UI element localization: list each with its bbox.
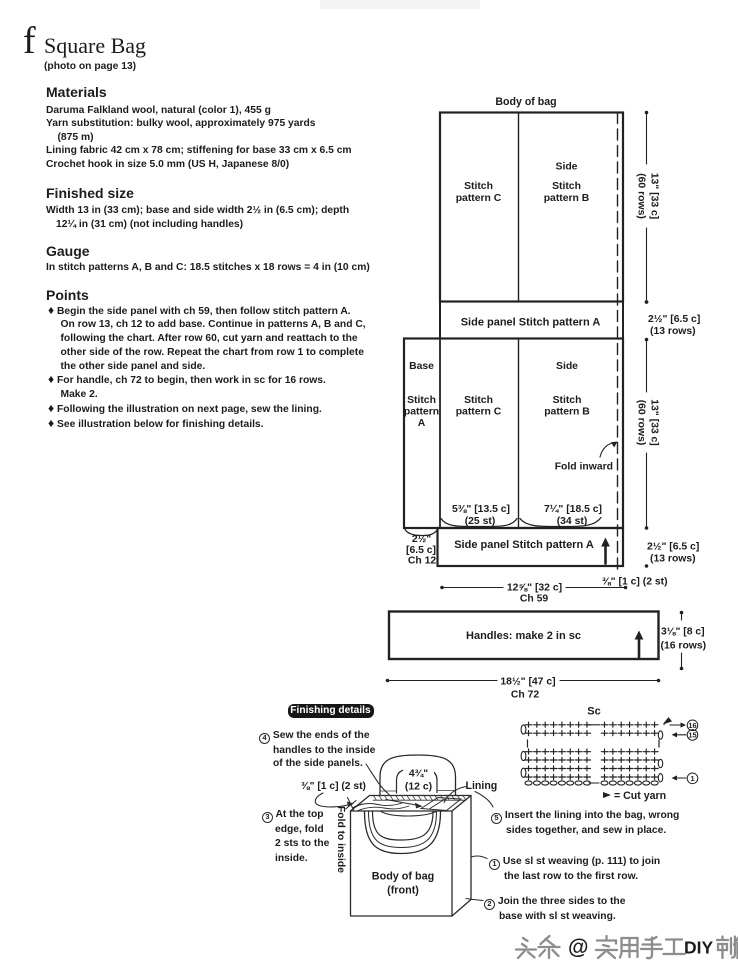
label: stitch pattern C (middle) (456, 395, 502, 418)
svg-text:2½" [6.5 c]: 2½" [6.5 c] (648, 314, 700, 325)
label: 13in 60 rows top (rotated) (636, 173, 660, 220)
svg-text:4¾": 4¾" (409, 769, 428, 780)
label: Side / stitch pattern B (middle) (544, 361, 590, 418)
label: 5-3/8 width (452, 504, 510, 527)
note 5 (491, 809, 679, 837)
bag: arrow on top face (386, 800, 423, 809)
label: 18-1/2 Ch 72 (500, 677, 555, 701)
label: 12-5/8 Ch 59 (507, 583, 562, 605)
svg-text:13" [33 c]: 13" [33 c] (649, 173, 660, 220)
3/8 label (illustration) (301, 780, 366, 794)
panel: handles rect (389, 612, 659, 660)
label: 3-1/8 16 rows (661, 627, 707, 652)
svg-text:(25 st): (25 st) (465, 516, 496, 527)
sc chart: row 1 arrow and number (672, 773, 698, 784)
bag: front handle sag curve (381, 812, 436, 817)
label: Base (409, 361, 434, 372)
svg-text:Side: Side (556, 361, 578, 372)
dimension line 13in top (645, 111, 649, 304)
fold to inside rotated label (334, 806, 348, 873)
dimension line 13in middle (645, 340, 649, 530)
width brace column B (520, 518, 601, 527)
dimension 2.5in band1 (645, 300, 649, 341)
decorative letter f (23, 19, 36, 63)
svg-text:Ch 72: Ch 72 (511, 690, 540, 701)
dimension 3-1/8 handles (680, 611, 684, 671)
bag: handle arch inner (397, 769, 438, 794)
label: 2.5in 13 rows band2 (647, 542, 699, 565)
divider: base column (439, 339, 441, 529)
svg-text:16: 16 (688, 721, 696, 730)
label: 3/8in 1c 2st (602, 577, 668, 588)
legend: cut yarn (603, 790, 666, 802)
svg-text:pattern B: pattern B (544, 193, 590, 204)
sc chart: turning chains right (658, 731, 662, 782)
svg-text:(13 rows): (13 rows) (650, 326, 696, 337)
watermark: toutiao chinese text (stylized) (516, 936, 738, 958)
svg-text:Ch 12: Ch 12 (408, 556, 437, 567)
Gauge heading (46, 243, 90, 259)
bag: front handle middle seam (369, 812, 437, 848)
svg-text:Side: Side (556, 162, 578, 173)
bag: front hanging handle outer (365, 812, 441, 854)
panel: top body rect (440, 113, 623, 302)
svg-text:15: 15 (688, 731, 696, 740)
bag: handle arch outer (380, 755, 456, 796)
pointer: note4 to handle (366, 764, 389, 795)
svg-text:pattern C: pattern C (456, 407, 502, 418)
Materials body (46, 104, 352, 172)
svg-text:Lining: Lining (466, 780, 498, 792)
label: Fold inward with pointer arrow (555, 442, 618, 473)
svg-text:2½": 2½" (412, 534, 431, 545)
band: side panel stitch pattern A (lower) (438, 528, 624, 566)
sc chart: gap dash row16 (588, 724, 600, 726)
svg-text:5⅜" [13.5 c]: 5⅜" [13.5 c] (452, 504, 510, 515)
svg-text:Ch 59: Ch 59 (520, 594, 549, 605)
sc chart: row break marks (528, 740, 660, 747)
label: 2-1/2 / 6.5c / Ch 12 (406, 534, 436, 567)
label: 7-1/4 width (544, 504, 602, 527)
Materials heading (46, 84, 107, 100)
divider: C/B columns (518, 339, 520, 529)
bag: front face (351, 811, 453, 916)
bag: front hanging handle inner (373, 812, 434, 841)
svg-text:= Cut yarn: = Cut yarn (614, 790, 666, 802)
fold line (dashed) (617, 113, 619, 571)
pointer: note2 to bag corner (466, 899, 483, 901)
bag: lining sheet on top face (421, 798, 461, 811)
bag: right side face (452, 796, 471, 917)
svg-text:pattern C: pattern C (456, 193, 502, 204)
svg-text:A: A (418, 418, 426, 429)
panel: middle rect with base column (404, 339, 623, 529)
svg-text:pattern B: pattern B (544, 407, 590, 418)
sc chart: cut yarn flag (664, 717, 672, 724)
svg-text:Base: Base (409, 361, 434, 372)
divider line top panel (518, 113, 520, 302)
svg-text:Stitch: Stitch (464, 181, 493, 192)
width brace column C (441, 519, 517, 527)
svg-text:Stitch: Stitch (407, 395, 436, 406)
label: 13in 60 rows middle (rotated) (636, 399, 660, 446)
Finishing details badge (288, 704, 374, 718)
sc chart: single crochet symbol rows (525, 722, 658, 779)
label: Body of bag (front) (372, 871, 434, 897)
svg-text:Handles: make 2 in sc: Handles: make 2 in sc (466, 630, 581, 642)
sc chart: row 15 arrow and number (672, 730, 698, 741)
label: Side / stitch pattern B (top) (544, 162, 590, 205)
svg-text:1: 1 (690, 774, 694, 783)
note 2 (484, 895, 625, 923)
svg-text:7¼" [18.5 c]: 7¼" [18.5 c] (544, 504, 602, 515)
label: stitch pattern A column (404, 395, 439, 429)
label: Lining (466, 780, 498, 792)
label: stitch pattern C (top) (456, 181, 502, 204)
work direction arrow band2 (601, 538, 610, 564)
note 3 (262, 808, 329, 867)
svg-text:Fold inward: Fold inward (555, 462, 613, 473)
label: 2.5in 13 rows band1 (648, 314, 700, 337)
svg-text:(16 rows): (16 rows) (661, 641, 707, 652)
svg-text:Side panel Stitch pattern A: Side panel Stitch pattern A (454, 539, 594, 551)
work direction arrow handles (635, 631, 644, 658)
pointer: note5 to lining (475, 792, 493, 808)
note 1 (489, 855, 660, 883)
svg-text:Stitch: Stitch (464, 395, 493, 406)
bag: top fold hatch (373, 795, 466, 800)
svg-text:(12 c): (12 c) (405, 782, 432, 793)
svg-text:Body of bag: Body of bag (495, 96, 556, 108)
svg-text:Side panel Stitch pattern A: Side panel Stitch pattern A (461, 317, 601, 329)
bag: top face (351, 796, 472, 812)
Finished size heading (46, 185, 134, 201)
dimension 2.5in band2 (645, 564, 649, 568)
label: Body of bag (495, 96, 556, 108)
subtitle (44, 60, 136, 74)
sc chart: row 16 arrow and number (670, 720, 698, 731)
label: 4-3/4 (12 c) (403, 767, 434, 793)
svg-text:DIY: DIY (684, 938, 714, 958)
sc chart: foundation chain row (525, 781, 658, 785)
svg-text:@: @ (568, 936, 588, 959)
svg-text:Body of bag: Body of bag (372, 871, 434, 883)
title (44, 33, 146, 59)
svg-text:(60 rows): (60 rows) (636, 173, 647, 219)
svg-text:13" [33 c]: 13" [33 c] (649, 399, 660, 446)
Points heading (46, 287, 89, 303)
svg-text:12⅝" [32 c]: 12⅝" [32 c] (507, 583, 562, 594)
note 4 (259, 729, 375, 771)
band: side panel stitch pattern A (upper) (440, 302, 623, 339)
bag: handle strap lines (380, 790, 456, 793)
pointer: 3/8 label to fold (315, 793, 356, 810)
svg-text:Stitch: Stitch (553, 395, 582, 406)
svg-text:[6.5 c]: [6.5 c] (406, 545, 436, 556)
svg-text:Stitch: Stitch (552, 181, 581, 192)
svg-text:3⅛" [8 c]: 3⅛" [8 c] (661, 627, 705, 638)
svg-text:pattern: pattern (404, 407, 439, 418)
dimension 18-1/2 (386, 679, 661, 683)
svg-text:Sc: Sc (587, 706, 600, 718)
svg-text:(front): (front) (387, 885, 419, 897)
svg-text:18½" [47 c]: 18½" [47 c] (500, 677, 555, 688)
svg-text:⅜" [1 c] (2 st): ⅜" [1 c] (2 st) (602, 577, 668, 588)
pointer: lining label to bag top (444, 787, 466, 803)
width brace base column (405, 530, 438, 536)
sc chart: turning chains left (521, 725, 526, 778)
bag: gathered fold squiggles on top face (351, 803, 410, 811)
faint scan smudge top (320, 0, 480, 9)
label: Sc (587, 706, 600, 718)
svg-text:2½" [6.5 c]: 2½" [6.5 c] (647, 542, 699, 553)
pointer: note1 to bag edge (471, 856, 487, 859)
svg-text:(13 rows): (13 rows) (650, 554, 696, 565)
dimension 12-5/8 bottom (440, 586, 627, 590)
svg-text:(60 rows): (60 rows) (636, 400, 647, 446)
svg-text:(34 st): (34 st) (557, 516, 588, 527)
